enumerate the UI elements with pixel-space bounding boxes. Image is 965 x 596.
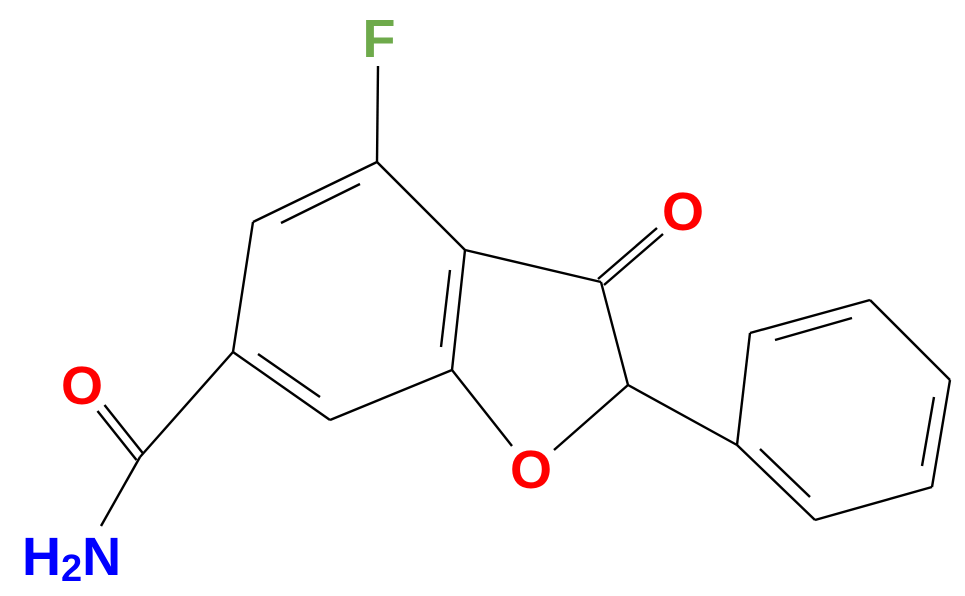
wire R3-R4 — [870, 300, 950, 380]
wire C3-C2 — [601, 282, 628, 385]
wire C5-C6 — [233, 222, 253, 352]
wire ipso-R2 — [737, 333, 750, 445]
svg-text:F: F — [363, 9, 396, 69]
wire O1-C7a — [452, 370, 512, 446]
wire Cam-N — [101, 457, 140, 526]
svg-text:O: O — [662, 182, 704, 242]
wire R2=R3 — [750, 300, 870, 333]
wire C2-ipso — [628, 385, 737, 445]
svg-text:O: O — [510, 440, 552, 500]
svg-text:O: O — [61, 356, 103, 416]
wire C3a-C3 — [465, 250, 601, 282]
wire R4=R5 — [932, 380, 950, 487]
wire C6-Cam — [140, 352, 233, 457]
wire C2-O1 — [554, 385, 628, 450]
wire C4-F — [377, 66, 378, 162]
wire C7a=C3a — [452, 250, 465, 370]
wire R5-R6 — [815, 487, 932, 520]
wire C6=C7 — [233, 352, 330, 420]
wire C4=C5 — [253, 162, 377, 222]
wire C3a-C4 — [377, 162, 465, 250]
wire Cam=Oam — [105, 405, 144, 454]
wire C7-C7a — [330, 370, 452, 420]
wire C3=O3 — [604, 234, 663, 285]
wire R6=ipso — [737, 445, 815, 520]
